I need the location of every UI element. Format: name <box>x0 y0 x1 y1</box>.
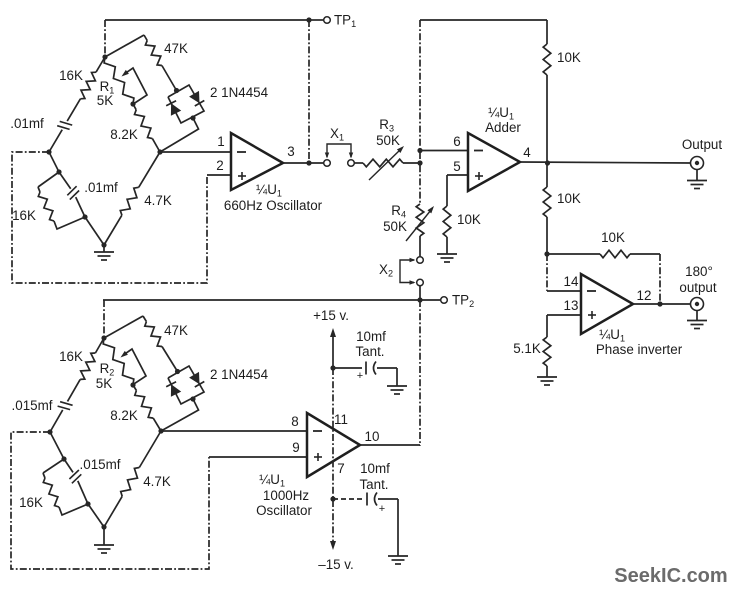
svg-text:¼U1: ¼U1 <box>256 182 282 199</box>
wire: bridge-1 feedback loop <box>12 152 207 283</box>
svg-text:50K: 50K <box>383 219 407 234</box>
svg-text:4.7K: 4.7K <box>144 193 172 208</box>
diode network 2x1N4454 (bridge-2) <box>168 366 204 404</box>
svg-text:660Hz Oscillator: 660Hz Oscillator <box>224 198 323 213</box>
wire: X1 to R3 <box>354 162 363 164</box>
svg-text:50K: 50K <box>376 133 400 148</box>
resistor 47K (bridge-1) <box>105 35 144 57</box>
wire: X2 to TP2 rail <box>419 286 421 300</box>
wire: 660Hz output <box>283 162 324 164</box>
svg-text:.01mf: .01mf <box>84 180 118 195</box>
svg-text:10K: 10K <box>601 230 625 245</box>
terminal Output <box>691 157 704 170</box>
node: +15 cap junction <box>330 365 335 370</box>
svg-text:5K: 5K <box>96 376 112 391</box>
svg-text:.015mf: .015mf <box>80 457 121 472</box>
svg-text:4: 4 <box>523 145 531 160</box>
node: adder output junction <box>545 160 550 165</box>
terminal 180 output <box>691 298 704 311</box>
svg-text:10K: 10K <box>457 212 481 227</box>
diode network 2x1N4454 (bridge-1) <box>168 85 204 123</box>
svg-text:16K: 16K <box>12 208 36 223</box>
potentiometer R4 50K <box>416 204 424 236</box>
svg-text:2 1N4454: 2 1N4454 <box>210 85 269 100</box>
svg-text:Output: Output <box>682 137 722 152</box>
resistor 16K (bridge-1 upper-left) <box>96 57 105 72</box>
potentiometer R3 50K <box>363 159 403 167</box>
svg-text:3: 3 <box>287 144 294 159</box>
svg-text:.01mf: .01mf <box>10 116 44 131</box>
svg-text:8: 8 <box>291 414 298 429</box>
svg-text:+: + <box>379 503 385 515</box>
resistor 4.7K (bridge-1) <box>139 152 160 187</box>
resistor 10K (inverter feedback) <box>547 253 600 255</box>
resistor 10K (adder out to inverter) <box>546 163 548 187</box>
svg-text:16K: 16K <box>59 68 83 83</box>
svg-text:10mf: 10mf <box>356 329 386 344</box>
resistor 10K (adder feedback upper) <box>546 20 548 44</box>
resistor 4.7K (bridge-2) <box>139 431 161 468</box>
wire: diode to bridge-2 right node <box>161 399 199 431</box>
op-amp U1 660Hz oscillator <box>231 133 283 190</box>
capacitor 10mf Tant (lower) <box>333 498 362 500</box>
svg-text:10: 10 <box>365 429 380 444</box>
node: R1/8.2K junction <box>130 101 135 106</box>
svg-text:47K: 47K <box>164 323 188 338</box>
node: cap bottom <box>82 214 87 219</box>
svg-text:10K: 10K <box>557 191 581 206</box>
svg-text:Oscillator: Oscillator <box>256 503 312 518</box>
potentiometer R1 5K <box>104 57 134 104</box>
power arrow -15v <box>330 541 336 550</box>
node: inverter input junction <box>544 251 549 256</box>
svg-text:13: 13 <box>564 298 579 313</box>
wire: adder feedback top <box>420 19 547 21</box>
svg-text:47K: 47K <box>164 41 188 56</box>
switch X1 <box>324 160 331 167</box>
node: cap top <box>56 169 61 174</box>
svg-text:16K: 16K <box>19 495 43 510</box>
node: cap top b2 <box>61 456 66 461</box>
node: bridge-2 bottom <box>101 524 106 529</box>
wire: adder output <box>520 162 691 163</box>
svg-text:10K: 10K <box>557 50 581 65</box>
ground (10mf lower) <box>388 555 408 557</box>
switch X2 <box>417 257 424 264</box>
node: bridge-1 left <box>46 149 51 154</box>
svg-text:8.2K: 8.2K <box>110 408 138 423</box>
svg-text:R4: R4 <box>391 203 406 220</box>
ground (bridge-2) <box>103 527 105 545</box>
node: pin7 junction <box>330 496 335 501</box>
wire: pin 8 input <box>161 430 307 432</box>
svg-text:180°: 180° <box>685 264 713 279</box>
capacitor .015mf (bridge-2 upper-left) <box>60 402 73 406</box>
op-amp U1 adder <box>468 133 520 191</box>
svg-text:6: 6 <box>453 134 460 149</box>
wire: pin 1 input <box>160 151 231 153</box>
wire: osc2 output riser <box>419 300 421 446</box>
wire: bridge-2 feedback loop <box>11 432 209 569</box>
ground (5.1K) <box>537 376 557 378</box>
wire: pin 14 input <box>546 254 548 291</box>
op-amp U1 phase inverter <box>581 274 633 334</box>
svg-text:1: 1 <box>217 134 224 149</box>
node: cap bottom b2 <box>85 501 90 506</box>
node: TP1 junction <box>306 17 311 22</box>
node: bridge-2 right <box>158 428 163 433</box>
resistor 16K (bridge-1 bypass) <box>38 172 59 187</box>
wire: R4 to X2 <box>419 236 421 257</box>
wire: pin 6 input <box>420 150 468 152</box>
terminal TP1 <box>324 17 331 24</box>
svg-text:12: 12 <box>637 288 652 303</box>
node: inverter output junction <box>657 301 662 306</box>
op-amp U1 1000Hz oscillator <box>307 413 360 477</box>
capacitor .01mf (bridge-1 lower-left) <box>67 186 76 195</box>
svg-text:R3: R3 <box>379 117 394 134</box>
svg-text:X2: X2 <box>379 262 393 279</box>
wire: inverter output <box>633 303 691 305</box>
svg-text:X1: X1 <box>330 126 344 143</box>
svg-text:Tant.: Tant. <box>359 477 388 492</box>
svg-text:+: + <box>357 370 363 382</box>
wire: bridge-1 left-bottom edge <box>49 152 59 172</box>
wire: summing rail upper <box>419 20 421 204</box>
wire: pin 13 input <box>547 314 581 316</box>
svg-text:¼U1: ¼U1 <box>259 472 285 489</box>
svg-text:output: output <box>679 280 717 295</box>
resistor 16K (bridge-2 bypass) <box>43 459 64 473</box>
svg-text:Phase inverter: Phase inverter <box>596 342 683 357</box>
svg-text:SeekIC.com: SeekIC.com <box>614 565 727 587</box>
svg-text:TP1: TP1 <box>334 13 356 30</box>
svg-text:.015mf: .015mf <box>12 398 53 413</box>
svg-text:4.7K: 4.7K <box>143 474 171 489</box>
svg-text:7: 7 <box>337 461 344 476</box>
power arrow +15v <box>330 328 336 337</box>
wire: bridge top feed <box>104 20 106 57</box>
wire: bridge-2 left-bottom edge <box>50 432 64 459</box>
ground (180 output) <box>696 311 698 321</box>
capacitor .01mf (bridge-1 upper-left) <box>60 121 72 125</box>
wire: TP1 riser <box>308 20 310 163</box>
svg-text:9: 9 <box>292 440 299 455</box>
wire: feedback down <box>659 254 661 304</box>
node: pin6 tap <box>417 148 422 153</box>
wire: feedback to TP1 (top rail) <box>105 19 309 21</box>
svg-text:14: 14 <box>564 274 579 289</box>
node: TP2 junction <box>417 297 422 302</box>
wire: pin 2 input <box>207 174 231 176</box>
resistor 10K (pin5 to ground) <box>446 175 448 206</box>
capacitor .015mf (bridge-2 lower-left) <box>69 470 79 479</box>
node: summing tap <box>417 160 422 165</box>
wire: bridge-2 top feed <box>103 300 105 338</box>
ground (bridge-1) <box>103 245 105 252</box>
svg-text:11: 11 <box>334 412 348 427</box>
ground (pin5 10K) <box>437 253 457 255</box>
svg-text:8.2K: 8.2K <box>110 127 138 142</box>
node: bridge-2 left <box>47 429 52 434</box>
wire: TP2 rail <box>103 299 441 301</box>
ground (10mf upper) <box>387 385 407 387</box>
resistor 16K (bridge-2 upper-left) <box>95 338 104 353</box>
wire: pin 5 input <box>447 174 468 176</box>
ground (Output) <box>696 170 698 181</box>
svg-text:2 1N4454: 2 1N4454 <box>210 367 269 382</box>
svg-text:+15 v.: +15 v. <box>313 308 349 323</box>
node: bridge-1 bottom <box>101 242 106 247</box>
node: bridge-1 right <box>157 149 162 154</box>
svg-text:TP2: TP2 <box>452 293 474 310</box>
svg-text:5.1K: 5.1K <box>513 341 541 356</box>
svg-text:–15 v.: –15 v. <box>318 557 353 572</box>
terminal TP2 <box>441 297 448 304</box>
potentiometer R2 5K <box>103 338 134 385</box>
capacitor 10mf Tant (upper) <box>333 367 362 369</box>
svg-text:2: 2 <box>216 158 223 173</box>
node: bridge-1 top <box>102 54 107 59</box>
wire: power rail <box>332 368 334 541</box>
svg-text:Adder: Adder <box>485 120 521 135</box>
svg-text:Tant.: Tant. <box>355 344 384 359</box>
resistor 5.1K <box>546 315 548 337</box>
svg-text:1000Hz: 1000Hz <box>263 488 309 503</box>
svg-text:16K: 16K <box>59 349 83 364</box>
resistor 8.2K (bridge-2) <box>133 385 136 391</box>
svg-text:5K: 5K <box>97 93 113 108</box>
svg-text:10mf: 10mf <box>360 461 390 476</box>
svg-text:5: 5 <box>453 159 460 174</box>
resistor 8.2K (bridge-1) <box>133 104 136 110</box>
wire: diode to bridge-1 right node <box>160 118 199 152</box>
node: R2/8.2K junction <box>130 382 135 387</box>
wire: pin 9 input <box>209 456 307 458</box>
node: output/TP1 junction <box>306 160 311 165</box>
wire: 1000Hz output <box>360 444 420 446</box>
node: bridge-2 top <box>101 335 106 340</box>
resistor 47K (bridge-2) <box>104 316 143 338</box>
